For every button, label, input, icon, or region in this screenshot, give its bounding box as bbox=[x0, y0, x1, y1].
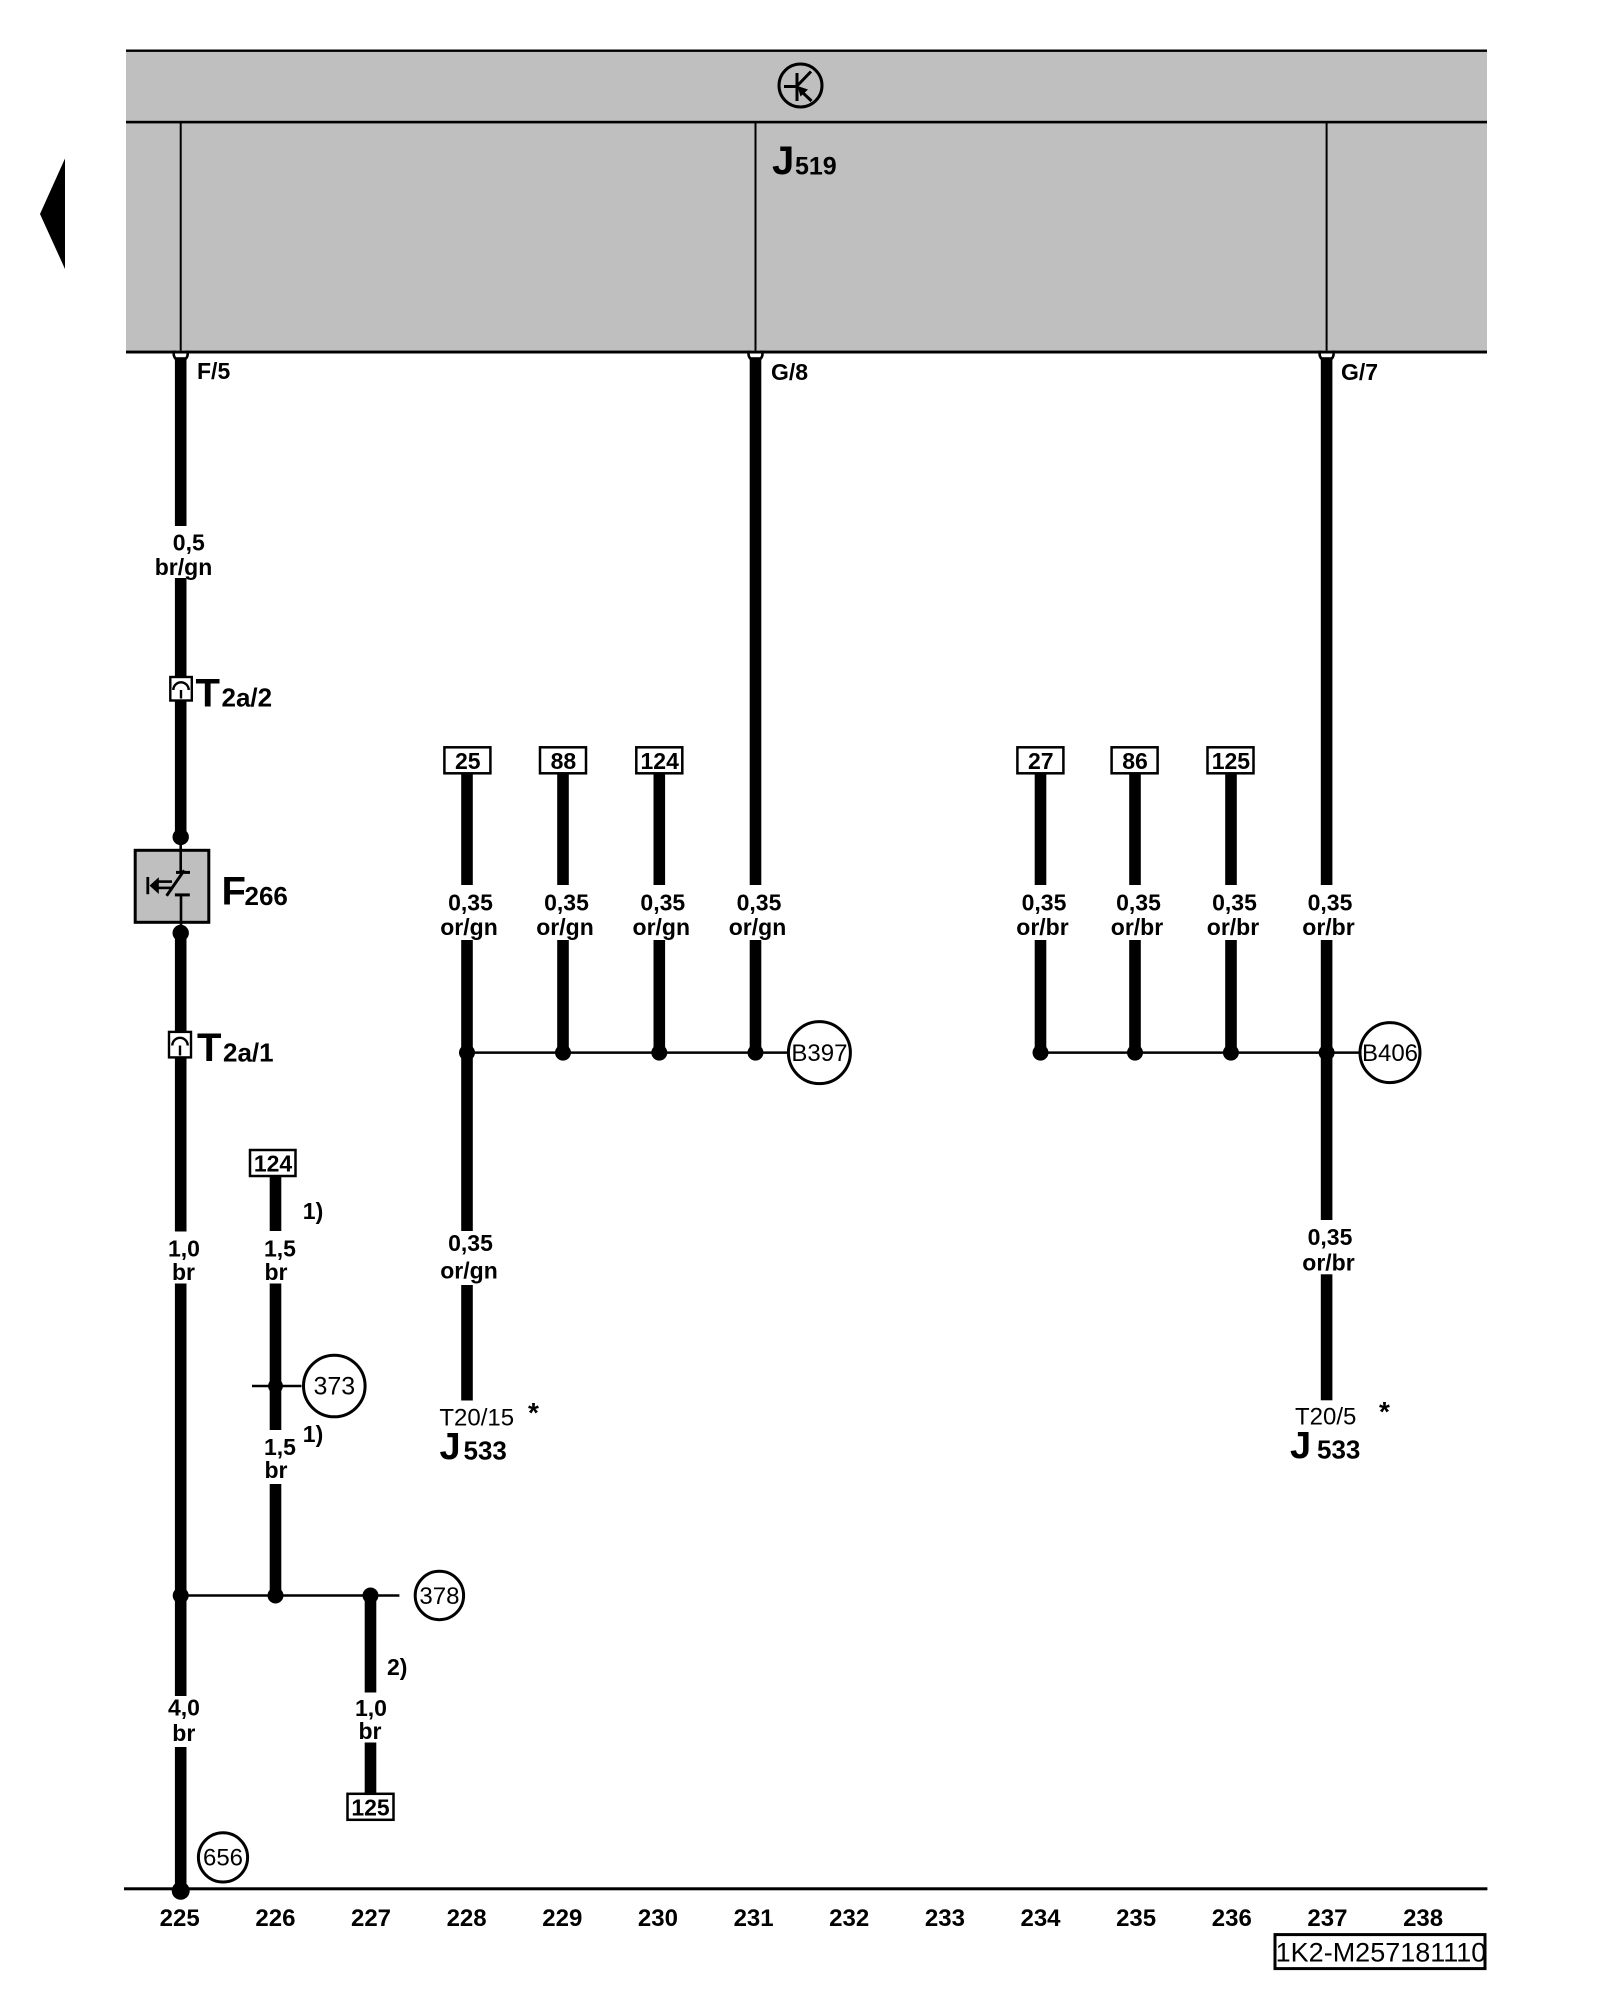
wire segment bbox=[175, 1284, 187, 1596]
ground junction dot bbox=[172, 1882, 190, 1900]
svg-text:373: 373 bbox=[313, 1373, 355, 1401]
wire segment col236 bbox=[1225, 773, 1237, 885]
svg-text:0,5: 0,5 bbox=[173, 530, 205, 556]
svg-text:or/gn: or/gn bbox=[440, 914, 498, 940]
svg-text:1): 1) bbox=[303, 1198, 323, 1224]
svg-text:J: J bbox=[440, 1426, 461, 1468]
wire segment col235 bbox=[1129, 773, 1141, 885]
svg-text:F/5: F/5 bbox=[197, 358, 230, 384]
nav arrow (page-back triangle) bbox=[40, 159, 65, 270]
junction dot bbox=[173, 1588, 189, 1604]
junction dot bbox=[1319, 1045, 1335, 1061]
wire segment col229 lower bbox=[557, 940, 569, 1053]
svg-text:or/gn: or/gn bbox=[440, 1258, 498, 1284]
svg-text:J: J bbox=[772, 139, 794, 183]
svg-text:533: 533 bbox=[464, 1436, 507, 1466]
connection node line (378 group) bbox=[175, 1594, 399, 1597]
wire segment col230 bbox=[654, 773, 666, 885]
svg-text:228: 228 bbox=[447, 1905, 487, 1932]
svg-text:br: br bbox=[172, 1720, 195, 1746]
junction dot col227 bbox=[363, 1588, 379, 1604]
junction dot bbox=[1223, 1045, 1239, 1061]
svg-text:or/gn: or/gn bbox=[729, 914, 787, 940]
connection circle B406 bbox=[1360, 1023, 1420, 1083]
junction dot bbox=[173, 829, 189, 845]
connection circle 373 bbox=[304, 1355, 366, 1417]
svg-text:F: F bbox=[222, 870, 246, 914]
svg-text:266: 266 bbox=[245, 881, 288, 911]
J519 separator line bbox=[126, 121, 1487, 124]
wire segment col237 to pin bbox=[1321, 1274, 1333, 1400]
node line B406 bbox=[1041, 1051, 1360, 1054]
svg-text:232: 232 bbox=[829, 1905, 869, 1932]
ground point circle 656 bbox=[198, 1833, 247, 1882]
wire G/7 inside module bbox=[1326, 123, 1328, 351]
svg-text:125: 125 bbox=[351, 1794, 390, 1820]
wire segment col231 G/8 bbox=[750, 357, 762, 885]
svg-text:230: 230 bbox=[638, 1905, 678, 1932]
svg-text:or/br: or/br bbox=[1207, 914, 1259, 940]
wire segment col237 below node bbox=[1321, 1053, 1333, 1220]
svg-text:235: 235 bbox=[1116, 1905, 1156, 1932]
svg-text:4,0: 4,0 bbox=[168, 1695, 200, 1721]
svg-text:1K2-M257181110: 1K2-M257181110 bbox=[1276, 1938, 1487, 1968]
wire segment col229 bbox=[557, 773, 569, 885]
svg-text:br/gn: br/gn bbox=[155, 554, 213, 580]
terminal box 25 bbox=[444, 747, 490, 773]
svg-text:1,5: 1,5 bbox=[264, 1236, 296, 1262]
terminal box 125 bbox=[1208, 747, 1254, 773]
wire segment col228 bbox=[461, 773, 473, 885]
svg-text:2a/2: 2a/2 bbox=[222, 683, 273, 713]
svg-text:0,35: 0,35 bbox=[1308, 1224, 1353, 1250]
svg-text:234: 234 bbox=[1020, 1905, 1061, 1932]
wire segment col236 lower bbox=[1225, 940, 1237, 1053]
node line B397 bbox=[467, 1051, 788, 1054]
control module J519 gray body bbox=[126, 50, 1487, 352]
junction dot bbox=[1127, 1045, 1143, 1061]
svg-text:T: T bbox=[197, 1026, 221, 1070]
svg-text:0,35: 0,35 bbox=[448, 890, 493, 916]
junction dot bbox=[1033, 1045, 1049, 1061]
svg-text:0,35: 0,35 bbox=[737, 890, 782, 916]
svg-text:124: 124 bbox=[254, 1151, 293, 1177]
svg-text:or/br: or/br bbox=[1111, 914, 1163, 940]
wire F/5 inside module bbox=[180, 123, 182, 351]
svg-text:236: 236 bbox=[1212, 1905, 1252, 1932]
wire segment col234 bbox=[1035, 773, 1047, 885]
svg-text:G/7: G/7 bbox=[1341, 359, 1378, 385]
svg-text:0,35: 0,35 bbox=[1308, 890, 1353, 916]
wire segment col231 lower bbox=[750, 940, 762, 1053]
svg-text:88: 88 bbox=[551, 748, 577, 774]
pin terminal F/5 bbox=[172, 346, 189, 361]
wire segment bbox=[365, 1743, 377, 1795]
junction dot on tick bbox=[268, 1379, 283, 1394]
wire segment col237 G/7 bbox=[1321, 357, 1333, 885]
svg-text:519: 519 bbox=[795, 153, 837, 181]
hood switch F266 bbox=[135, 840, 209, 929]
J519 bottom edge line bbox=[126, 351, 1487, 354]
svg-text:T: T bbox=[196, 672, 220, 716]
connector T2a/1 bbox=[169, 1032, 191, 1058]
svg-text:656: 656 bbox=[203, 1845, 243, 1872]
wire segment col228 to pin bbox=[461, 1285, 473, 1401]
J519 top edge line bbox=[126, 50, 1487, 52]
svg-text:229: 229 bbox=[542, 1905, 582, 1932]
svg-text:or/gn: or/gn bbox=[536, 914, 594, 940]
svg-text:124: 124 bbox=[641, 748, 680, 774]
junction dot col226 bbox=[268, 1588, 284, 1604]
wire segment bbox=[175, 1595, 187, 1696]
svg-text:25: 25 bbox=[455, 748, 481, 774]
connector T2a/2 bbox=[170, 677, 192, 701]
wire segment col230 lower bbox=[654, 940, 666, 1053]
svg-text:or/br: or/br bbox=[1302, 914, 1354, 940]
svg-text:233: 233 bbox=[925, 1905, 965, 1932]
svg-text:238: 238 bbox=[1403, 1905, 1443, 1932]
wire segment bbox=[175, 578, 187, 677]
svg-text:2): 2) bbox=[387, 1654, 407, 1680]
svg-text:1,0: 1,0 bbox=[168, 1236, 200, 1262]
junction dot bbox=[173, 925, 189, 941]
pin terminal G/8 bbox=[747, 346, 764, 361]
svg-text:0,35: 0,35 bbox=[1212, 890, 1257, 916]
svg-text:226: 226 bbox=[255, 1905, 295, 1932]
svg-text:86: 86 bbox=[1122, 748, 1148, 774]
wire G/8 inside module bbox=[755, 123, 757, 351]
svg-text:533: 533 bbox=[1317, 1435, 1360, 1465]
diagram id box bbox=[1275, 1935, 1485, 1969]
svg-text:0,35: 0,35 bbox=[448, 1230, 493, 1256]
tick line to 373 bbox=[252, 1385, 302, 1388]
wire segment col235 lower bbox=[1129, 940, 1141, 1053]
connection circle 378 bbox=[415, 1571, 463, 1619]
junction dot bbox=[748, 1045, 764, 1061]
terminal box 124 bbox=[636, 747, 682, 773]
svg-text:378: 378 bbox=[419, 1583, 459, 1610]
wire segment col228 lower bbox=[461, 940, 473, 1053]
svg-text:125: 125 bbox=[1212, 748, 1251, 774]
svg-text:0,35: 0,35 bbox=[1116, 890, 1161, 916]
svg-text:or/gn: or/gn bbox=[633, 914, 691, 940]
svg-text:225: 225 bbox=[160, 1905, 200, 1932]
wire segment bbox=[175, 938, 187, 1032]
svg-text:1): 1) bbox=[303, 1421, 323, 1447]
svg-text:*: * bbox=[528, 1397, 539, 1428]
svg-text:br: br bbox=[265, 1259, 288, 1285]
svg-text:br: br bbox=[172, 1259, 195, 1285]
wire segment bbox=[270, 1284, 282, 1431]
wire segment col237 lower bbox=[1321, 940, 1333, 1053]
wire segment bbox=[270, 1484, 282, 1596]
wire segment bbox=[175, 1058, 187, 1232]
svg-text:231: 231 bbox=[734, 1905, 774, 1932]
terminal box 124 (col 226) bbox=[250, 1150, 296, 1176]
svg-text:2a/1: 2a/1 bbox=[223, 1038, 274, 1068]
terminal box 27 bbox=[1017, 747, 1063, 773]
pin terminal G/7 bbox=[1318, 346, 1335, 361]
svg-text:0,35: 0,35 bbox=[1022, 890, 1067, 916]
wire segment col228 below node bbox=[461, 1053, 473, 1231]
bottom track rail bbox=[124, 1887, 1487, 1890]
wire segment bbox=[175, 701, 187, 834]
wire segment bbox=[175, 1747, 187, 1889]
wire F/5 upper segment bbox=[175, 357, 187, 526]
wire segment col234 lower bbox=[1035, 940, 1047, 1053]
svg-text:0,35: 0,35 bbox=[640, 890, 685, 916]
junction dot bbox=[459, 1045, 475, 1061]
svg-text:B406: B406 bbox=[1362, 1040, 1418, 1067]
connection circle B397 bbox=[788, 1022, 850, 1084]
svg-text:B397: B397 bbox=[791, 1040, 847, 1067]
svg-text:*: * bbox=[1379, 1396, 1390, 1427]
svg-text:237: 237 bbox=[1307, 1905, 1347, 1932]
svg-text:br: br bbox=[359, 1718, 382, 1744]
svg-text:or/br: or/br bbox=[1016, 914, 1068, 940]
svg-text:0,35: 0,35 bbox=[544, 890, 589, 916]
svg-text:br: br bbox=[265, 1457, 288, 1483]
bus connection symbol (circled arrow) bbox=[779, 64, 822, 107]
svg-text:227: 227 bbox=[351, 1905, 391, 1932]
svg-text:or/br: or/br bbox=[1302, 1250, 1354, 1276]
wire segment bbox=[270, 1176, 282, 1231]
junction dot bbox=[555, 1045, 571, 1061]
svg-text:J: J bbox=[1290, 1425, 1311, 1467]
terminal box 125 (col 227) bbox=[348, 1794, 394, 1820]
junction dot bbox=[651, 1045, 667, 1061]
terminal box 88 bbox=[540, 747, 586, 773]
svg-text:27: 27 bbox=[1028, 748, 1054, 774]
wire segment col227 from node bbox=[365, 1595, 377, 1693]
terminal box 86 bbox=[1112, 747, 1158, 773]
svg-text:G/8: G/8 bbox=[771, 359, 808, 385]
